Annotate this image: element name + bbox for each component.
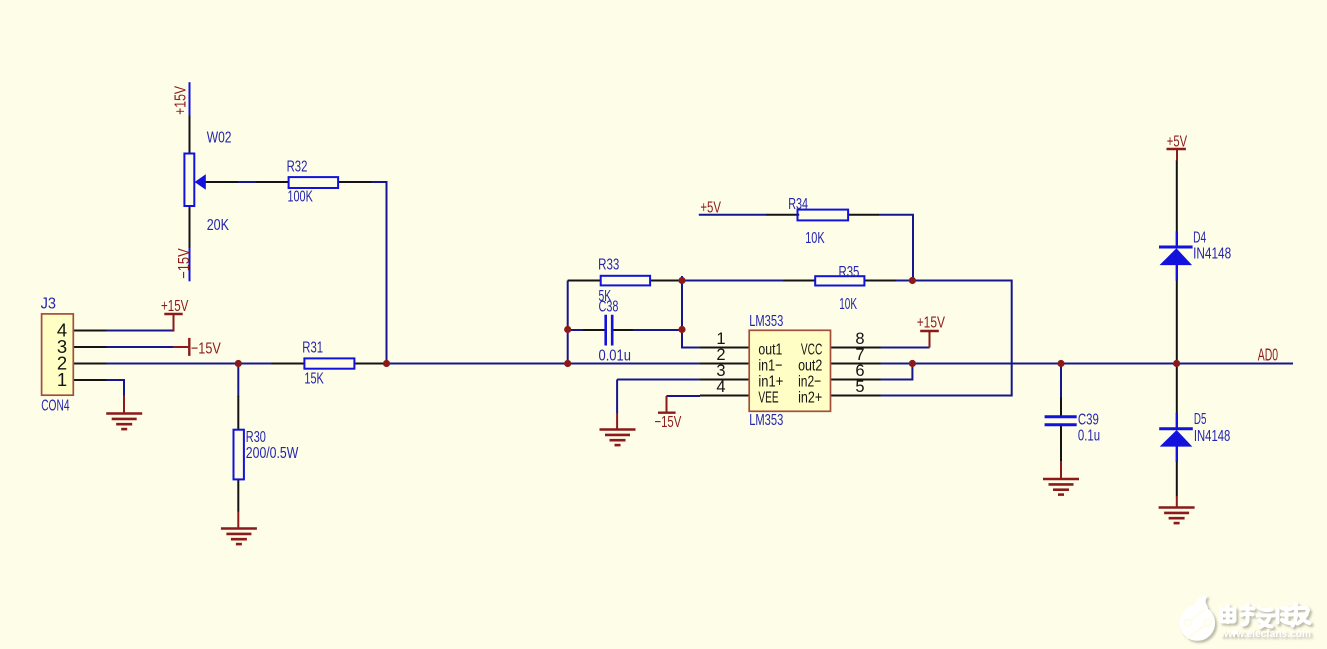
svg-text:0.1u: 0.1u (1078, 428, 1100, 445)
svg-text:LM353: LM353 (749, 313, 783, 330)
svg-text:1: 1 (57, 369, 67, 390)
svg-text:C38: C38 (599, 299, 619, 316)
svg-text:−15V: −15V (176, 248, 193, 279)
svg-text:+15V: +15V (161, 298, 189, 315)
svg-text:J3: J3 (41, 295, 56, 312)
svg-text:VEE: VEE (758, 389, 778, 406)
svg-text:out1: out1 (758, 341, 782, 358)
svg-text:0.01u: 0.01u (599, 348, 631, 365)
svg-text:R34: R34 (788, 196, 808, 213)
svg-text:10K: 10K (805, 230, 825, 247)
svg-text:−15V: −15V (191, 340, 221, 357)
svg-text:W02: W02 (207, 129, 232, 146)
svg-text:R32: R32 (287, 158, 308, 175)
svg-text:R31: R31 (302, 340, 323, 357)
svg-text:+5V: +5V (700, 199, 721, 216)
svg-text:R35: R35 (839, 264, 860, 281)
svg-text:CON4: CON4 (41, 397, 69, 414)
svg-text:R30: R30 (246, 429, 266, 446)
svg-text:100K: 100K (288, 188, 314, 205)
svg-text:5: 5 (855, 378, 864, 396)
svg-text:out2: out2 (798, 357, 822, 374)
svg-text:in1−: in1− (758, 357, 782, 374)
svg-text:20K: 20K (207, 217, 230, 234)
svg-text:4: 4 (716, 378, 725, 396)
svg-text:VCC: VCC (801, 341, 822, 358)
svg-text:in1+: in1+ (758, 373, 783, 390)
svg-text:D5: D5 (1194, 411, 1207, 428)
svg-text:+15V: +15V (917, 315, 946, 332)
svg-text:LM353: LM353 (749, 412, 783, 429)
svg-text:+15V: +15V (172, 86, 189, 115)
svg-text:−15V: −15V (655, 414, 682, 431)
svg-text:IN4148: IN4148 (1193, 246, 1231, 263)
svg-text:www.elecfans.com: www.elecfans.com (1219, 628, 1311, 640)
svg-text:AD0: AD0 (1258, 344, 1278, 364)
svg-text:C39: C39 (1078, 412, 1099, 429)
svg-text:D4: D4 (1193, 230, 1206, 247)
svg-text:IN4148: IN4148 (1194, 428, 1230, 445)
svg-text:15K: 15K (304, 370, 324, 387)
svg-text:10K: 10K (839, 296, 857, 313)
svg-text:200/0.5W: 200/0.5W (246, 445, 299, 462)
svg-text:in2+: in2+ (798, 389, 822, 406)
svg-text:in2−: in2− (798, 373, 821, 390)
svg-text:+5V: +5V (1167, 133, 1188, 150)
svg-text:R33: R33 (598, 257, 619, 274)
